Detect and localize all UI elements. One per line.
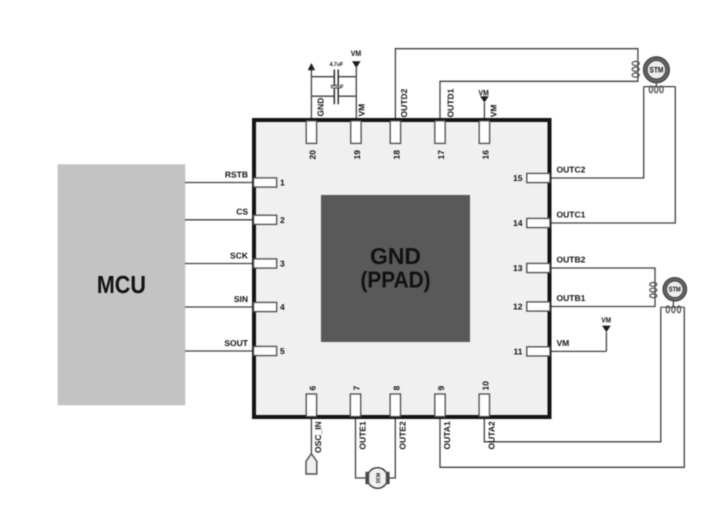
svg-text:GND: GND [370, 243, 421, 269]
power VM symbol at pin11 [550, 332, 606, 351]
svg-text:GND: GND [315, 98, 325, 117]
wire OUTE2 (pin8 to DCM right brush) [386, 417, 396, 478]
stepper motor STM1 [643, 57, 669, 87]
svg-text:VM: VM [488, 105, 498, 118]
svg-text:SOUT: SOUT [224, 338, 248, 348]
svg-text:OUTB1: OUTB1 [557, 293, 586, 303]
pin 20 [306, 121, 316, 144]
svg-text:8: 8 [392, 386, 402, 391]
svg-text:11: 11 [514, 347, 523, 357]
svg-text:MCU: MCU [97, 272, 146, 299]
svg-text:OUTA2: OUTA2 [486, 421, 496, 449]
svg-text:9: 9 [436, 386, 446, 391]
svg-text:6: 6 [308, 386, 318, 391]
node VM net at pin19 [355, 67, 357, 122]
pin 14 [527, 218, 550, 227]
pin 15 [527, 173, 550, 182]
power VM symbol at pin16 [483, 103, 485, 122]
pin 7 [350, 394, 360, 417]
wire SOUT (MCU to pin5) [185, 350, 254, 352]
wire SIN (MCU to pin4) [185, 306, 254, 308]
wire OUTE1 (pin7 to DCM left brush) [356, 417, 366, 478]
svg-text:16: 16 [481, 150, 491, 160]
svg-text:SCK: SCK [230, 250, 249, 260]
pin 11 [527, 347, 550, 356]
inductor coil STM1 left [632, 61, 639, 77]
capacitor C2 0.1uF [334, 88, 338, 105]
svg-text:19: 19 [352, 150, 362, 160]
wire OUTC2 (pin15 to STM1 bottom coil left lead) [550, 87, 644, 178]
pin 19 [351, 121, 361, 144]
pin 6 [306, 394, 316, 417]
svg-text:2: 2 [280, 215, 285, 225]
wire cap bus bottom [311, 95, 356, 97]
inductor coil STM2 bottom [666, 306, 681, 313]
wire OUTA1 (pin9 to STM2 bottom coil right lead) [440, 307, 684, 467]
svg-text:OSC_IN: OSC_IN [313, 421, 323, 453]
wire STM1 bottom coil spine [644, 86, 676, 88]
stepper motor STM2 [663, 278, 687, 308]
power VM symbol at pin19 [352, 61, 361, 68]
svg-text:STM: STM [649, 66, 663, 75]
svg-text:10: 10 [481, 381, 491, 391]
svg-text:5: 5 [280, 346, 285, 356]
svg-text:VM: VM [478, 88, 489, 97]
svg-text:13: 13 [513, 263, 523, 273]
svg-text:VM: VM [351, 49, 362, 58]
pin 13 [527, 263, 550, 272]
pin 12 [527, 302, 550, 311]
svg-text:0.1uF: 0.1uF [331, 83, 344, 90]
svg-text:17: 17 [436, 150, 446, 160]
op IC U1 body [254, 120, 550, 417]
svg-text:VM: VM [357, 104, 367, 117]
pin 18 [390, 121, 400, 144]
pin 9 [435, 394, 445, 417]
terminal OSC_IN [306, 454, 317, 474]
wire STM2 left coil spine [654, 282, 656, 299]
wire OSC_IN (pin6 to terminal) [310, 417, 312, 454]
svg-text:14: 14 [513, 218, 523, 228]
svg-text:7: 7 [352, 386, 362, 391]
wire OUTB1 (pin12 to STM2 left coil bottom) [550, 299, 655, 307]
inductor coil STM2 left [650, 283, 657, 298]
svg-text:VM: VM [601, 316, 611, 325]
svg-text:CS: CS [236, 207, 248, 217]
svg-text:4: 4 [280, 302, 285, 312]
wire OUTA2 (pin10 to STM2 bottom coil left lead) [484, 307, 661, 442]
wire RSTB (MCU to pin1) [185, 182, 254, 184]
node GND net at pin20 [310, 70, 312, 122]
svg-text:DCM: DCM [376, 473, 382, 483]
pin 4 [254, 302, 277, 311]
capacitor C1 4.7uF [334, 70, 338, 87]
svg-text:12: 12 [513, 302, 523, 312]
svg-text:3: 3 [280, 259, 285, 269]
svg-text:OUTB2: OUTB2 [557, 255, 586, 265]
svg-text:20: 20 [308, 150, 318, 160]
svg-text:VM: VM [557, 338, 570, 348]
wire STM1 left coil spine [637, 60, 639, 77]
svg-text:STM: STM [669, 287, 681, 294]
pin 5 [254, 346, 277, 355]
inductor coil STM1 bottom [649, 86, 663, 93]
MCU U2 [58, 164, 186, 405]
svg-text:OUTC1: OUTC1 [557, 210, 586, 220]
svg-text:18: 18 [392, 150, 402, 160]
svg-text:4.7uF: 4.7uF [330, 62, 344, 68]
svg-text:OUTA1: OUTA1 [442, 421, 452, 449]
svg-text:OUTE1: OUTE1 [358, 421, 368, 450]
wire cap bus top [311, 76, 356, 78]
wire OUTD1 (pin17 to STM1 coil bottom) [440, 77, 638, 122]
node GND (PPAD) [321, 195, 470, 342]
pin 8 [390, 394, 400, 417]
svg-text:SIN: SIN [234, 294, 248, 304]
svg-text:OUTD2: OUTD2 [399, 88, 409, 117]
wire STM2 bottom coil spine [661, 306, 685, 308]
pin 16 [479, 121, 489, 144]
wire SCK (MCU to pin3) [185, 263, 254, 265]
svg-text:OUTE2: OUTE2 [397, 421, 407, 450]
wire OUTC1 (pin14 to STM1 bottom coil right lead) [550, 87, 675, 223]
svg-text:OUTC2: OUTC2 [557, 165, 586, 175]
pin 3 [254, 259, 277, 268]
wire OUTB2 (pin13 to STM2 left coil top) [550, 268, 655, 282]
pin 17 [435, 121, 445, 144]
pin 1 [254, 178, 277, 187]
svg-text:15: 15 [513, 173, 523, 183]
pin 10 [479, 394, 489, 417]
svg-text:RSTB: RSTB [225, 169, 248, 179]
dc motor DCM [365, 468, 389, 489]
svg-text:(PPAD): (PPAD) [361, 267, 431, 293]
wire OUTD2 (pin18 to STM1 coil top) [395, 49, 638, 122]
svg-text:OUTD1: OUTD1 [446, 88, 456, 117]
pin 2 [254, 215, 277, 224]
ground arrow [308, 63, 315, 70]
svg-text:1: 1 [280, 178, 285, 188]
wire CS (MCU to pin2) [185, 219, 254, 221]
